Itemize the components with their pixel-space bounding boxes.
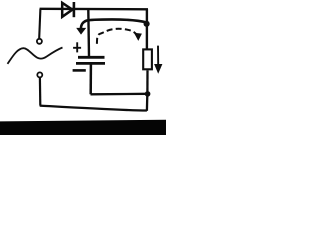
wire: right vertical from top rail to resistor <box>146 9 148 49</box>
label: + polarity of capacitor <box>73 42 81 52</box>
wire: capacitor bottom plate down to bottom node <box>89 65 92 95</box>
current arrow: discharge path (dashed hook with down arrowhead) <box>97 29 142 44</box>
diode D1 (series rectifier) <box>62 2 74 17</box>
wire: top-left vertical from top rail to upper terminal <box>39 9 40 38</box>
label: - polarity of capacitor <box>73 69 86 72</box>
wire: top rail <box>40 8 148 11</box>
current arrow: load current beside resistor (vertical, down) <box>154 46 162 74</box>
wire: bottom-left vertical from lower terminal <box>39 78 42 106</box>
capacitor C1, bottom plate <box>76 62 105 65</box>
wire: top rail down to capacitor top plate <box>87 9 90 56</box>
junction: bottom-right node <box>145 91 151 97</box>
wire: resistor bottom to bottom-right junction <box>146 70 148 91</box>
resistor R1 (load, rectangle) <box>143 49 152 69</box>
wire: capacitor bottom to bottom-right junction <box>91 93 148 96</box>
current arrow: charging path (solid hook with down arrowhead) <box>76 19 147 34</box>
wire: bottom rail <box>40 106 147 111</box>
wire: bottom-right vertical up to junction <box>146 95 149 111</box>
terminal: upper AC input (open circle) <box>37 39 42 44</box>
junction: top-right node (arrow origin on right vertical) <box>144 21 150 27</box>
capacitor C1 (reservoir), top plate <box>78 56 105 59</box>
scan artifact: black page-edge bar <box>0 120 166 135</box>
terminal: lower AC input (open circle) <box>37 72 42 77</box>
AC source sine-wave symbol <box>8 48 63 64</box>
